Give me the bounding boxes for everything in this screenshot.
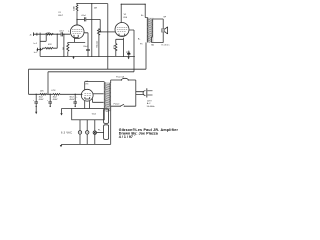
svg-text:47K: 47K bbox=[47, 33, 51, 35]
svg-text:10K: 10K bbox=[40, 90, 44, 92]
svg-text:450V: 450V bbox=[69, 99, 74, 101]
svg-text:6.3 VAC: 6.3 VAC bbox=[61, 131, 72, 134]
svg-text:.05uf: .05uf bbox=[81, 15, 86, 17]
svg-text:A-C: A-C bbox=[147, 102, 151, 105]
svg-text:2M: 2M bbox=[94, 7, 97, 9]
svg-text:Power: Power bbox=[114, 103, 120, 106]
svg-text:25uf: 25uf bbox=[126, 52, 130, 54]
svg-text:8 ohms: 8 ohms bbox=[162, 44, 170, 46]
svg-text:100K: 100K bbox=[74, 5, 76, 10]
svg-text:20uf: 20uf bbox=[83, 46, 87, 48]
svg-text:Fuse 1A: Fuse 1A bbox=[116, 76, 124, 79]
svg-text:450V: 450V bbox=[39, 99, 44, 101]
svg-text:4 / 1 / 97: 4 / 1 / 97 bbox=[119, 135, 133, 139]
svg-text:450V: 450V bbox=[53, 99, 58, 101]
svg-text:P.L.: P.L. bbox=[98, 130, 102, 132]
svg-text:6SL7: 6SL7 bbox=[58, 15, 64, 17]
svg-text:50-60Hz: 50-60Hz bbox=[147, 106, 155, 108]
svg-text:Volume: Volume bbox=[96, 40, 98, 48]
svg-text:47K: 47K bbox=[48, 44, 52, 46]
svg-text:4.7K: 4.7K bbox=[51, 90, 56, 92]
svg-text:1M: 1M bbox=[63, 47, 65, 50]
svg-text:8Ω: 8Ω bbox=[151, 44, 154, 46]
svg-text:117V: 117V bbox=[147, 100, 152, 102]
svg-text:.02uf: .02uf bbox=[59, 31, 64, 33]
